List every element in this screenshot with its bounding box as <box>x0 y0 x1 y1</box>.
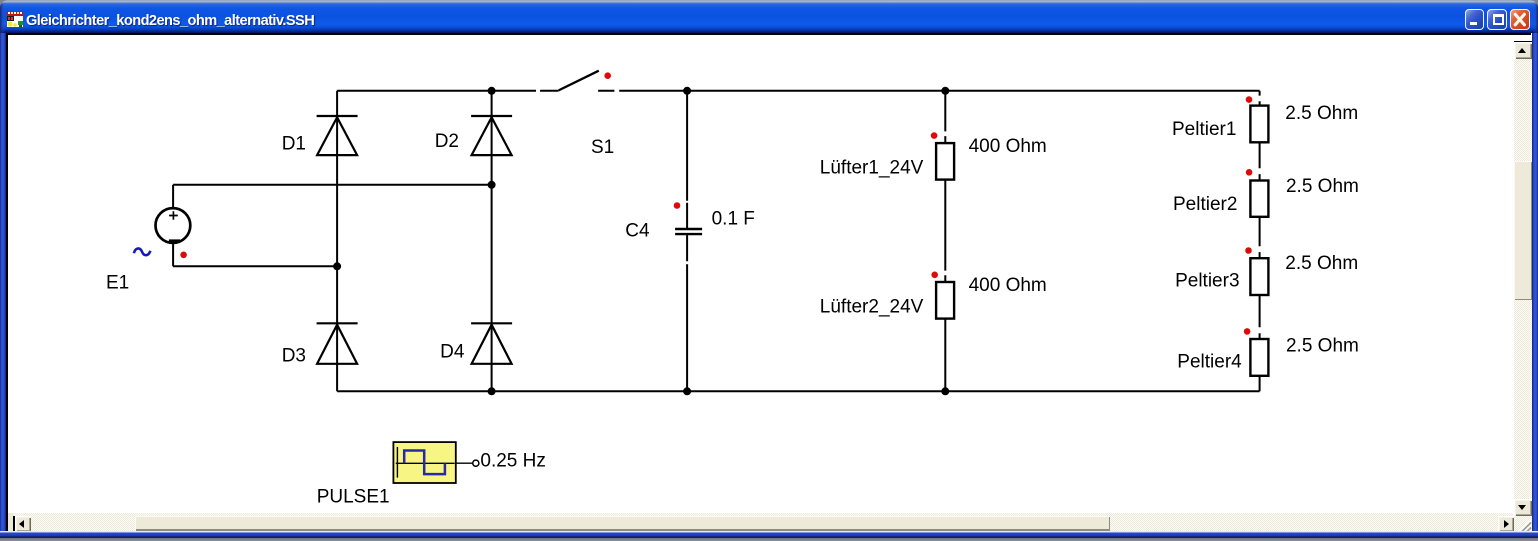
svg-text:D3: D3 <box>282 346 306 367</box>
svg-text:PULSE1: PULSE1 <box>317 487 390 508</box>
svg-text:Peltier3: Peltier3 <box>1175 271 1239 292</box>
svg-text:400 Ohm: 400 Ohm <box>968 275 1046 296</box>
svg-text:Lüfter2_24V: Lüfter2_24V <box>820 296 924 317</box>
svg-text:C4: C4 <box>625 221 650 242</box>
svg-text:E1: E1 <box>106 273 129 294</box>
svg-text:0.25 Hz: 0.25 Hz <box>480 450 545 471</box>
svg-text:S1: S1 <box>591 137 614 158</box>
svg-text:Peltier1: Peltier1 <box>1172 119 1236 140</box>
svg-text:400 Ohm: 400 Ohm <box>968 136 1046 157</box>
svg-text:Lüfter1_24V: Lüfter1_24V <box>820 157 924 178</box>
svg-text:2.5 Ohm: 2.5 Ohm <box>1285 253 1358 274</box>
svg-text:D2: D2 <box>435 131 459 152</box>
svg-text:D1: D1 <box>282 134 306 155</box>
svg-text:D4: D4 <box>440 341 465 362</box>
svg-text:Peltier2: Peltier2 <box>1173 194 1237 215</box>
svg-text:2.5 Ohm: 2.5 Ohm <box>1286 335 1359 356</box>
svg-text:2.5 Ohm: 2.5 Ohm <box>1285 103 1358 124</box>
svg-text:Peltier4: Peltier4 <box>1177 352 1242 373</box>
svg-text:2.5 Ohm: 2.5 Ohm <box>1286 176 1359 197</box>
svg-text:0.1 F: 0.1 F <box>711 208 754 229</box>
